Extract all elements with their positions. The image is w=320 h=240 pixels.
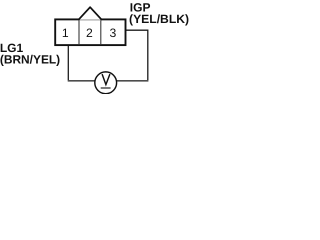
connector keying tab (triangle on top of cavity 2) — [79, 7, 101, 20]
pin number 2 — [86, 26, 93, 40]
svg-text:2: 2 — [86, 26, 93, 40]
net label LG1 (BRN/YEL) — [0, 41, 60, 66]
svg-text:(YEL/BLK): (YEL/BLK) — [129, 12, 189, 26]
cavity divider 2|3 — [100, 20, 102, 44]
svg-text:(BRN/YEL): (BRN/YEL) — [0, 53, 60, 67]
wire from pin 1 to voltmeter (left vertical + bottom horizontal) — [68, 45, 95, 81]
net label IGP (YEL/BLK) — [129, 1, 189, 26]
voltmeter underline under V — [101, 87, 111, 89]
svg-text:1: 1 — [62, 26, 69, 40]
pin number 1 — [62, 26, 69, 40]
svg-text:3: 3 — [110, 26, 117, 40]
pin number 3 — [110, 26, 117, 40]
connector body (3-pin, rectangle outline) — [55, 19, 125, 45]
voltmeter V1 (circle) — [95, 72, 117, 94]
voltmeter letter V — [102, 74, 110, 85]
cavity divider 1|2 — [78, 20, 80, 44]
wire from pin 3 side to voltmeter (top horizontal + right vertical + bottom horizontal) — [116, 30, 148, 81]
